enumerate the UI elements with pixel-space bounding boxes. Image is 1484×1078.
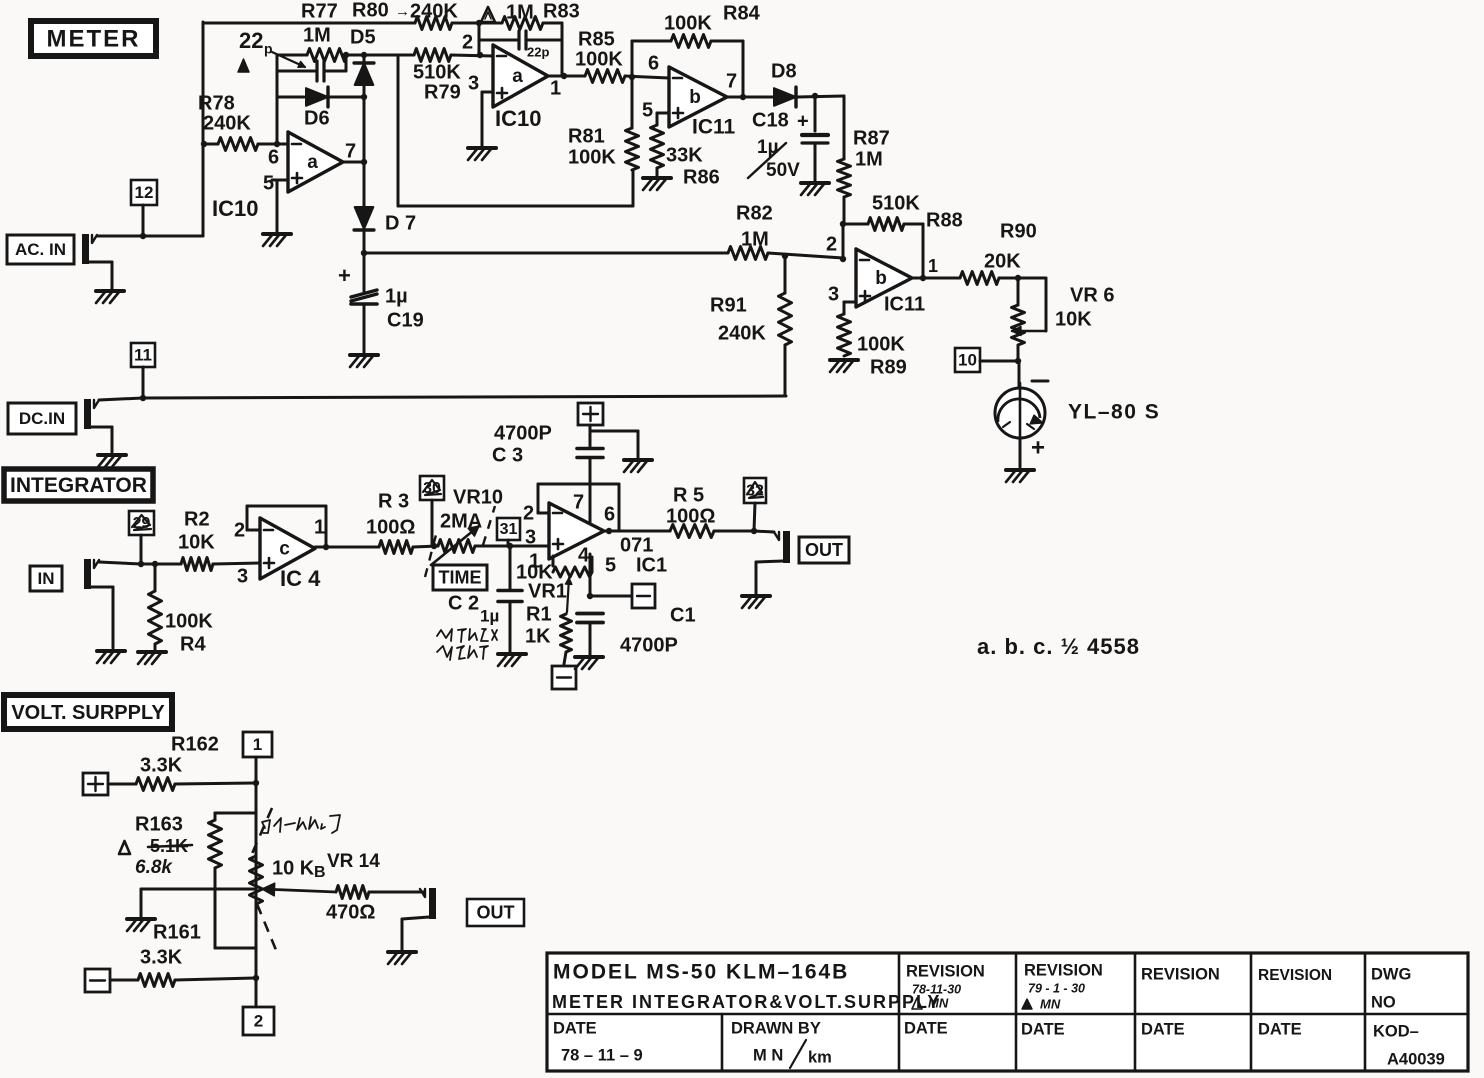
label IC1 (636, 554, 667, 576)
wire AC.IN sleeve (89, 262, 112, 289)
label 10KB (272, 857, 326, 881)
wire IC4 output (315, 544, 379, 550)
title A40039 (1387, 1050, 1445, 1068)
label R81 (568, 125, 605, 147)
svg-text:R85: R85 (578, 28, 615, 50)
svg-text:7: 7 (726, 70, 737, 92)
svg-text:240K: 240K (203, 112, 251, 134)
svg-text:METER INTEGRATOR&VOLT.SURPPLY: METER INTEGRATOR&VOLT.SURPPLY (552, 992, 941, 1012)
label 1 (IC1) (529, 550, 540, 572)
resistor R88 510K (843, 218, 923, 279)
svg-text:4700P: 4700P (620, 634, 678, 656)
svg-text:B: B (314, 864, 326, 881)
svg-text:p: p (264, 41, 273, 57)
ground DC.IN (98, 455, 126, 467)
svg-text:TIME: TIME (439, 567, 482, 587)
resistor R163 loop (209, 813, 257, 948)
terminal box 12 (131, 180, 157, 236)
dashed link VR10 (425, 506, 495, 577)
svg-text:R88: R88 (926, 209, 963, 231)
svg-text:AC. IN: AC. IN (15, 240, 66, 259)
label R91 (710, 294, 747, 316)
svg-text:1µ: 1µ (385, 285, 408, 307)
svg-text:50V: 50V (766, 160, 800, 181)
svg-text:22: 22 (239, 28, 263, 53)
svg-text:071: 071 (620, 534, 653, 556)
svg-text:1: 1 (253, 735, 262, 754)
label 10K (VR6) (1055, 308, 1092, 330)
label 240K (410, 0, 458, 22)
svg-text:100K: 100K (664, 12, 712, 34)
svg-text:3.3K: 3.3K (140, 754, 183, 776)
ground C18 (801, 183, 829, 195)
svg-text:D 7: D 7 (385, 212, 416, 234)
meter YL-80S (995, 361, 1045, 443)
svg-text:+: + (797, 110, 809, 132)
svg-text:R4: R4 (180, 633, 206, 655)
svg-text:IC10: IC10 (212, 196, 258, 221)
label R85 (578, 28, 615, 50)
terminal box 31 (497, 518, 520, 546)
title drawn value (753, 1040, 832, 1068)
label D5 (350, 26, 376, 48)
label 510K (R88) (872, 192, 920, 214)
resistor R86 33K (651, 125, 664, 176)
svg-text:6: 6 (648, 52, 659, 74)
svg-text:DATE: DATE (904, 1019, 948, 1037)
label YL-80S (1068, 401, 1160, 424)
svg-text:6.8k: 6.8k (135, 857, 173, 878)
wire VS OUT sleeve (402, 917, 429, 950)
wire pin3 hook (844, 302, 856, 314)
label R84 (723, 2, 761, 24)
terminal box 11 (131, 343, 155, 401)
svg-text:R78: R78 (198, 92, 235, 114)
handwritten rev2 initials (1022, 996, 1061, 1011)
note a.b.c. half 4558 (977, 634, 1140, 659)
label 3 (IC1) (525, 526, 536, 548)
svg-text:MN: MN (928, 995, 949, 1010)
wire pin6 feedback vertical (276, 55, 279, 144)
label 6.8k (135, 857, 173, 878)
label 1M (R87) (855, 148, 883, 170)
ground VS mid (127, 919, 155, 931)
jack OUT (integrator) (754, 531, 790, 563)
label 100K (R85) (575, 48, 623, 70)
svg-text:c: c (279, 539, 290, 560)
svg-text:REVISION: REVISION (906, 962, 985, 980)
wire pin4 down (587, 554, 593, 599)
label 1 (IC4 out) (314, 516, 325, 538)
op-amp IC11 b (second) (856, 249, 912, 307)
label IC11 (first) (692, 116, 736, 139)
svg-text:b: b (689, 87, 701, 108)
jack DC.IN (84, 396, 786, 429)
slash 50V (748, 143, 786, 178)
svg-text:1M: 1M (855, 148, 883, 170)
label 4700P (C1) (620, 634, 678, 656)
label 1M (R82) (741, 228, 769, 250)
label C1 (670, 604, 696, 626)
svg-text:R 5: R 5 (673, 484, 704, 506)
svg-text:b: b (875, 268, 887, 289)
label 2 (IC11b2) (826, 233, 837, 255)
svg-text:VOLT. SURPPLY: VOLT. SURPPLY (11, 702, 165, 724)
label IC10 (first) (212, 196, 258, 221)
terminal box 32 (744, 478, 766, 531)
resistor R4 100K (149, 564, 162, 650)
change mark triangle (481, 7, 495, 22)
svg-text:100K: 100K (575, 48, 623, 70)
svg-text:IC11: IC11 (884, 293, 925, 315)
ground meter (1006, 470, 1034, 482)
label 100K (R89) (857, 333, 905, 355)
svg-text:1M: 1M (303, 24, 331, 46)
terminal box 30 (420, 476, 444, 546)
resistor R1 1K (561, 614, 572, 664)
svg-text:a. b. c. ½ 4558: a. b. c. ½ 4558 (977, 634, 1140, 659)
terminal box 1 (243, 732, 272, 757)
svg-text:3: 3 (237, 565, 248, 587)
svg-text:4700P: 4700P (494, 422, 552, 444)
title date 4 (1141, 1020, 1185, 1038)
label 7 (IC11b out) (726, 70, 737, 92)
svg-text:1: 1 (550, 77, 561, 99)
terminal box 10 (955, 348, 1021, 372)
wire IC10a2 output (548, 73, 585, 79)
label R88 (926, 209, 963, 231)
svg-text:1: 1 (314, 516, 325, 538)
svg-text:79 - 1 - 30: 79 - 1 - 30 (1028, 981, 1085, 995)
svg-text:R162: R162 (171, 733, 219, 755)
svg-text:100K: 100K (568, 146, 616, 168)
katakana metallized (437, 629, 497, 660)
change mark triangle (R163) (119, 841, 130, 854)
label C19 (387, 309, 424, 331)
ground IN sleeve (97, 651, 125, 663)
label C3 (492, 444, 523, 466)
change arrow (395, 3, 410, 20)
knob label TIME (433, 565, 487, 590)
label R79 (424, 81, 461, 103)
svg-text:R161: R161 (153, 921, 201, 943)
svg-text:12: 12 (135, 183, 154, 202)
input label IN (30, 566, 62, 591)
section label VOLT. SURPPLY (4, 695, 172, 729)
label 3.3K (R162) (140, 754, 183, 776)
label 1K (R1) (525, 625, 551, 647)
wire wiper to ground (141, 889, 256, 917)
resistor R81 100K (626, 77, 639, 170)
svg-text:a: a (512, 66, 523, 87)
feedback wire IC4 (247, 506, 326, 547)
capacitor 22p (IC10a2 feedback) (479, 31, 562, 59)
svg-text:YL–80 S: YL–80 S (1068, 401, 1160, 424)
label 10K (R2) (178, 531, 215, 553)
svg-text:7: 7 (573, 491, 584, 513)
title DWG NO (1371, 965, 1411, 1011)
label R89 (870, 356, 907, 378)
resistor R84 100K (671, 35, 711, 48)
label 3 (IC4) (237, 565, 248, 587)
power box plus (VS) (83, 773, 108, 795)
wire IC11b2 output (912, 275, 960, 281)
label 1M (R77) (303, 24, 331, 46)
svg-text:D8: D8 (771, 60, 797, 82)
svg-text:R81: R81 (568, 125, 605, 147)
section label METER (31, 21, 156, 56)
label 240K (R91) (718, 322, 766, 344)
wire IC10a output (343, 159, 367, 165)
label 4700P (C3) (494, 422, 552, 444)
ground pin3 IC10a2 (468, 148, 496, 160)
svg-text:2: 2 (234, 519, 245, 541)
handwritten rev1 initials (912, 995, 949, 1010)
svg-text:R80: R80 (352, 0, 389, 21)
label R87 (853, 127, 890, 149)
svg-text:5: 5 (605, 554, 616, 576)
wire C3 to ground (590, 431, 638, 458)
svg-text:+: + (338, 263, 351, 288)
svg-text:REVISION: REVISION (1024, 961, 1103, 979)
wire IC11b output (727, 96, 773, 99)
capacitor C2 1u (498, 546, 522, 652)
svg-text:INTEGRATOR: INTEGRATOR (10, 474, 147, 497)
svg-text:33K: 33K (666, 144, 703, 166)
svg-text:km: km (808, 1048, 832, 1066)
jack IN (84, 559, 181, 589)
wiper arrow VR14 (262, 883, 336, 896)
label VR6 (1070, 284, 1114, 306)
title KOD (1373, 1022, 1419, 1040)
wire DC.IN sleeve (91, 427, 112, 452)
svg-text:R90: R90 (1000, 220, 1037, 242)
label 20K (984, 250, 1021, 272)
diode D5 (354, 55, 374, 97)
label R86 (683, 166, 720, 188)
svg-text:VR 14: VR 14 (327, 851, 380, 872)
jack OUT (VS) (420, 888, 436, 919)
op-amp IC11 b (first) (669, 67, 727, 127)
svg-text:DATE: DATE (1141, 1020, 1185, 1038)
wire D5-D7 vertical (363, 97, 366, 207)
title revision 1 (906, 962, 985, 980)
svg-text:DATE: DATE (553, 1019, 597, 1037)
svg-text:11: 11 (134, 345, 152, 364)
wire pin5 to ground (272, 180, 288, 232)
ground pin5 IC10a (263, 234, 291, 246)
svg-text:10K: 10K (178, 531, 215, 553)
label 10K (VR1) (516, 561, 553, 583)
svg-text:2MA: 2MA (440, 510, 482, 532)
svg-text:+: + (1031, 434, 1045, 461)
label R5 (673, 484, 704, 506)
svg-text:10: 10 (958, 350, 977, 369)
wire R79 to pin2 (451, 52, 493, 58)
svg-text:240K: 240K (410, 0, 458, 22)
ground R4 (138, 652, 166, 664)
wiper arrow VR10 (431, 526, 479, 565)
jack AC.IN (82, 233, 203, 264)
label D7 (385, 212, 416, 234)
svg-text:3.3K: 3.3K (140, 946, 183, 968)
output label OUT (799, 537, 849, 563)
svg-text:510K: 510K (872, 192, 920, 214)
svg-text:R84: R84 (723, 2, 761, 24)
label C2 (448, 592, 479, 614)
potentiometer VR14 10KB (250, 808, 277, 950)
wire top-left vertical and top bus (203, 22, 415, 236)
label IC10 (second) (495, 106, 541, 131)
label 100ohm (R5) (666, 505, 715, 527)
svg-text:A40039: A40039 (1387, 1050, 1445, 1068)
resistor R80 240K (415, 17, 452, 30)
power box minus (R1) (552, 666, 576, 689)
terminal box 29 (129, 511, 154, 564)
svg-text:C 3: C 3 (492, 444, 523, 466)
resistor R85 100K (585, 70, 625, 83)
ground C19 (350, 355, 378, 367)
resistor R3 100ohm (379, 541, 438, 554)
label 7 (IC10a out) (345, 140, 356, 162)
label 3 (IC11b2) (828, 283, 839, 305)
title date 1 (553, 1019, 597, 1037)
resistor R79 510K (414, 49, 451, 62)
label 2 (IC1) (523, 502, 534, 524)
label 100K (R4) (165, 610, 213, 632)
label R162 (171, 733, 219, 755)
svg-text:R89: R89 (870, 356, 907, 378)
wire R85 to node6 (625, 74, 669, 80)
wire pin2 vertical (478, 23, 481, 56)
resistor R161 3.3K (110, 974, 259, 987)
svg-text:100K: 100K (165, 610, 213, 632)
potentiometer VR10 2M (438, 540, 513, 553)
svg-text:470Ω: 470Ω (326, 901, 375, 923)
svg-text:1µ: 1µ (757, 137, 779, 158)
label 071 (620, 534, 653, 556)
svg-text:R 3: R 3 (378, 490, 409, 512)
power box minus (VS) (85, 969, 110, 992)
label 50V (766, 160, 800, 181)
label 5 (IC11b) (642, 99, 653, 121)
svg-text:240K: 240K (718, 322, 766, 344)
label R4 (180, 633, 206, 655)
label IC4 (280, 566, 321, 591)
svg-text:D6: D6 (304, 107, 330, 129)
label R2 (184, 508, 210, 530)
title date 2 (904, 1019, 948, 1037)
capacitor C18 1u/50V (802, 96, 828, 181)
label R3 (378, 490, 409, 512)
svg-text:C19: C19 (387, 309, 424, 331)
power box minus (IC1) (590, 584, 655, 608)
output label OUT (VS) (467, 899, 524, 926)
label 6 (IC11b) (648, 52, 659, 74)
resistor R89 100K (838, 314, 851, 356)
svg-text:R87: R87 (853, 127, 890, 149)
svg-text:R163: R163 (135, 813, 183, 835)
resistor R82 1M (728, 247, 768, 260)
svg-text:5: 5 (263, 172, 274, 194)
label 6 (IC1) (604, 503, 615, 525)
title sheet name (552, 992, 941, 1012)
svg-text:100K: 100K (857, 333, 905, 355)
op-amp IC10 a (second) (493, 45, 548, 107)
title revision 3 (1141, 965, 1220, 983)
svg-text:10K: 10K (1055, 308, 1092, 330)
title revision 4 (1258, 967, 1332, 984)
label R80 (352, 0, 389, 21)
wire R84 loop left (632, 41, 671, 77)
input label AC.IN (7, 235, 74, 264)
op-amp IC4 c (260, 518, 315, 579)
wire IC1 output (604, 528, 670, 534)
label IC11 (second) (884, 293, 925, 315)
resistor R2 10K (181, 558, 260, 571)
title revision 2 (1024, 961, 1103, 979)
svg-text:5: 5 (642, 99, 653, 121)
svg-text:1µ: 1µ (480, 606, 499, 625)
svg-text:2: 2 (523, 502, 534, 524)
ground R89 (830, 360, 858, 372)
svg-text:R79: R79 (424, 81, 461, 103)
svg-text:METER: METER (47, 25, 141, 52)
handwritten rev1 date (912, 982, 961, 996)
svg-text:M N: M N (753, 1046, 783, 1064)
svg-text:R83: R83 (543, 0, 580, 22)
svg-text:2: 2 (254, 1011, 263, 1030)
svg-text:OUT: OUT (477, 902, 515, 922)
label D6 (304, 107, 330, 129)
ground C1 (575, 657, 603, 669)
svg-text:MN: MN (1040, 996, 1061, 1011)
label 1 (IC11b2 out) (928, 256, 938, 276)
label VR1 (528, 580, 567, 602)
label 1 (IC10a2 out) (550, 77, 561, 99)
svg-text:C 2: C 2 (448, 592, 479, 614)
wire IN sleeve (91, 587, 113, 648)
label 2 (IC4) (234, 519, 245, 541)
svg-text:20K: 20K (984, 250, 1021, 272)
label 1u (C2) (480, 606, 499, 625)
svg-text:1M: 1M (741, 228, 769, 250)
label 5 (263, 172, 274, 194)
svg-text:3: 3 (525, 526, 536, 548)
svg-text:100Ω: 100Ω (666, 505, 715, 527)
wiper VR1 (566, 578, 572, 614)
handwritten rev2 date (1028, 981, 1085, 995)
svg-text:1M: 1M (506, 1, 534, 23)
svg-text:IC10: IC10 (495, 106, 541, 131)
section label INTEGRATOR (4, 469, 153, 501)
svg-text:3: 3 (468, 72, 479, 94)
svg-text:C1: C1 (670, 604, 696, 626)
svg-text:OUT: OUT (805, 540, 843, 560)
label 100K (R84) (664, 12, 712, 34)
ground C2 (498, 654, 526, 666)
resistor R77 1M (277, 49, 367, 62)
svg-text:R82: R82 (736, 202, 773, 224)
title model text (553, 961, 849, 984)
label 100K (R81) (568, 146, 616, 168)
feedback bracket IC1 (538, 484, 619, 531)
power box plus (IC1) (578, 403, 603, 425)
diode D6 (277, 87, 367, 107)
svg-text:2: 2 (462, 31, 473, 53)
title block table (547, 953, 1468, 1071)
potentiometer VR6 10K (1012, 278, 1047, 361)
